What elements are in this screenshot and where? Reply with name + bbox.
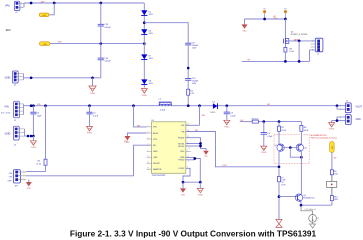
svg-text:1: 1 bbox=[187, 150, 188, 152]
resistor R10 bbox=[330, 196, 338, 202]
junction bbox=[336, 104, 339, 107]
junction bbox=[336, 119, 339, 122]
svg-text:0.25: 0.25 bbox=[190, 93, 194, 95]
wire top VPb rail bbox=[24, 2, 144, 4]
connector J5 VOUT bbox=[337, 101, 363, 113]
svg-text:J7: J7 bbox=[317, 54, 319, 56]
svg-text:ON: ON bbox=[9, 173, 13, 175]
svg-text:PGND: PGND bbox=[87, 133, 93, 135]
wire HV source rail bbox=[242, 60, 310, 62]
svg-text:SAMPLE: SAMPLE bbox=[153, 168, 162, 171]
current source I1 bbox=[301, 205, 320, 228]
junction bbox=[284, 18, 287, 21]
ground GND below C1/J4 bbox=[30, 136, 36, 149]
wire to emitter node bbox=[331, 201, 333, 206]
wire base tie bbox=[282, 147, 298, 149]
svg-text:5: 5 bbox=[148, 144, 149, 146]
svg-text:TP10: TP10 bbox=[273, 18, 277, 20]
connector J8 GND out bbox=[332, 115, 361, 125]
junction bbox=[32, 104, 35, 107]
junction bbox=[88, 104, 91, 107]
junction bbox=[278, 120, 281, 123]
junction bbox=[30, 2, 33, 5]
junction bbox=[30, 76, 33, 79]
capacitor C1 bbox=[30, 106, 42, 136]
net flag -90V (yellow oval) bbox=[39, 13, 49, 17]
svg-text:+ PULSE(2m 0): + PULSE(2m 0) bbox=[304, 209, 316, 211]
net flag -90V (yellow oval 2) bbox=[39, 42, 50, 46]
svg-text:-90V: -90V bbox=[40, 2, 45, 4]
junction bbox=[278, 165, 281, 168]
junction bbox=[91, 76, 94, 79]
junction bbox=[182, 181, 185, 184]
svg-text:GND: GND bbox=[5, 132, 11, 136]
junction bbox=[300, 204, 303, 207]
ammeter probe box bbox=[327, 181, 337, 187]
IC left pin stubs bbox=[147, 127, 152, 169]
wire GND2 to C1 bbox=[25, 135, 34, 137]
wire MODE/MON1/MON2 tie bbox=[186, 138, 206, 151]
svg-text:10nF: 10nF bbox=[281, 185, 286, 187]
svg-text:VPD: VPD bbox=[204, 156, 208, 158]
wire connector drop bbox=[309, 50, 311, 62]
svg-text:OFF: OFF bbox=[8, 180, 13, 182]
svg-text:C4: C4 bbox=[267, 133, 271, 135]
wire gate pulldown bbox=[298, 41, 300, 62]
svg-text:ON: ON bbox=[9, 177, 13, 179]
wire probe bbox=[331, 187, 333, 195]
svg-text:PGND: PGND bbox=[178, 160, 185, 162]
junction bbox=[225, 104, 228, 107]
svg-text:11: 11 bbox=[147, 162, 149, 164]
junction bbox=[289, 146, 292, 149]
wire SW node drop bbox=[199, 106, 201, 126]
diode D8 bbox=[141, 79, 153, 85]
wire probe bbox=[331, 175, 333, 182]
connector J6 gate drive bbox=[310, 38, 323, 56]
transistor Q4 (NPN) bbox=[295, 191, 315, 201]
svg-text:100V: 100V bbox=[192, 83, 197, 85]
svg-text:8: 8 bbox=[148, 156, 149, 158]
ground PGND below D8 bbox=[141, 89, 147, 97]
wire COMP pin bbox=[183, 168, 190, 182]
wire AUX2 pin bbox=[127, 133, 146, 136]
svg-text:J4: J4 bbox=[14, 145, 17, 147]
svg-text:GND: GND bbox=[181, 194, 186, 196]
wire MOSFET drain bbox=[284, 19, 286, 38]
svg-text:R3 20.0: R3 20.0 bbox=[252, 118, 259, 120]
svg-text:13: 13 bbox=[147, 168, 149, 170]
svg-text:100V: 100V bbox=[192, 47, 197, 49]
junction node diode chain bbox=[143, 21, 146, 24]
svg-text:0.01µF: 0.01µF bbox=[104, 61, 111, 63]
capacitor C14 bbox=[98, 44, 112, 78]
svg-text:TP2: TP2 bbox=[263, 9, 266, 11]
capacitor C4 bbox=[261, 122, 273, 147]
svg-text:71.5k: 71.5k bbox=[36, 163, 41, 165]
svg-text:HV: HV bbox=[334, 158, 337, 160]
transistor Q2 (PNP, mirrored) bbox=[296, 144, 307, 151]
svg-text:Q1: Q1 bbox=[274, 145, 276, 147]
connector J1 VIN bbox=[1, 101, 24, 122]
svg-text:C1: C1 bbox=[37, 113, 41, 115]
svg-text:3: 3 bbox=[148, 131, 149, 133]
junction bbox=[298, 60, 301, 63]
connector J2 GND bbox=[5, 71, 24, 87]
svg-text:MODE: MODE bbox=[178, 138, 185, 140]
svg-text:GND: GND bbox=[125, 142, 130, 144]
junction bbox=[199, 181, 202, 184]
svg-text:SW: SW bbox=[202, 115, 205, 117]
svg-text:AUX2: AUX2 bbox=[153, 132, 159, 135]
svg-text:100V: 100V bbox=[149, 58, 154, 60]
junction bbox=[30, 104, 33, 107]
ground VPD at MON pins bbox=[203, 151, 209, 158]
svg-text:0.01µF: 0.01µF bbox=[104, 27, 111, 29]
wire drop to flag bbox=[49, 3, 54, 15]
svg-text:GND: GND bbox=[243, 30, 248, 32]
diode D7 bbox=[141, 54, 153, 60]
resistor R3 bbox=[252, 118, 259, 123]
svg-text:VDF: VDF bbox=[180, 151, 185, 153]
svg-text:SHORT: SHORT bbox=[153, 163, 161, 165]
ground PGND below C2 bbox=[87, 126, 93, 134]
svg-text:2: 2 bbox=[148, 125, 149, 127]
wire flag2 to diode chain bbox=[50, 43, 144, 45]
wire FB pin net bbox=[186, 132, 279, 167]
svg-text:10.0k: 10.0k bbox=[289, 51, 293, 53]
ground GND under IC bbox=[180, 182, 186, 196]
wire MON1 bbox=[186, 143, 201, 145]
transistor Q1 (PNP) bbox=[274, 144, 284, 151]
ground GND (TP net) bbox=[242, 19, 248, 32]
ground PGND below C4 bbox=[261, 146, 267, 154]
diode D6 bbox=[141, 29, 153, 35]
junction bbox=[99, 2, 102, 5]
svg-text:VIN: VIN bbox=[37, 104, 41, 106]
svg-text:GND: GND bbox=[356, 119, 361, 121]
IC right pin names bbox=[178, 125, 185, 170]
svg-text:Figure 2-1. 3.3 V Input -90 V: Figure 2-1. 3.3 V Input -90 V Output Con… bbox=[70, 228, 317, 238]
svg-text:JP1: JP1 bbox=[15, 185, 19, 187]
svg-text:PGND: PGND bbox=[261, 152, 267, 154]
wire GND rail bbox=[24, 77, 101, 79]
svg-text:2.2µF: 2.2µF bbox=[267, 136, 273, 138]
svg-text:6: 6 bbox=[188, 161, 189, 163]
svg-text:J3: J3 bbox=[15, 12, 18, 14]
ground PGND below C3 bbox=[224, 120, 230, 128]
svg-text:ES1D: ES1D bbox=[211, 112, 216, 114]
wire R3 sense net bbox=[240, 121, 253, 123]
IC right pin numbers bbox=[187, 124, 190, 169]
junction bbox=[53, 2, 56, 5]
svg-text:100V: 100V bbox=[149, 83, 154, 85]
wire ground tie under IC bbox=[183, 181, 200, 183]
svg-text:J5: J5 bbox=[346, 101, 348, 103]
svg-text:100V: 100V bbox=[149, 14, 154, 16]
wire PAD/PGND pins tie bbox=[186, 157, 201, 182]
svg-text:J1: J1 bbox=[14, 120, 17, 122]
junction bbox=[32, 135, 35, 138]
svg-text:-90V: -90V bbox=[332, 145, 334, 150]
svg-text:C3: C3 bbox=[230, 113, 234, 115]
junction bbox=[27, 135, 30, 138]
svg-text:VIN: VIN bbox=[4, 104, 8, 108]
svg-text:GND: GND bbox=[27, 188, 32, 190]
junction bbox=[143, 42, 146, 45]
wire bbox=[187, 45, 189, 79]
junction bbox=[187, 104, 190, 107]
ground PGND (output) bbox=[329, 121, 335, 131]
svg-text:R2: R2 bbox=[38, 161, 41, 163]
svg-text:CAP: CAP bbox=[153, 156, 158, 159]
svg-text:49.9k: 49.9k bbox=[281, 130, 286, 132]
test point TP3 bbox=[284, 9, 287, 19]
junction bbox=[300, 156, 303, 159]
resistor R5 bbox=[278, 122, 286, 144]
junction bbox=[262, 120, 265, 123]
svg-text:TP3: TP3 bbox=[284, 9, 287, 11]
wire SW pin bbox=[186, 124, 200, 126]
resistor R8 bbox=[284, 44, 294, 61]
wire bbox=[187, 95, 189, 106]
wire top-right TP net bbox=[245, 18, 286, 20]
svg-text:0.1µF: 0.1µF bbox=[230, 115, 236, 117]
svg-text:VIN: VIN bbox=[153, 127, 157, 129]
junction bbox=[284, 60, 287, 63]
junction bbox=[44, 104, 47, 107]
svg-text:I1: I1 bbox=[317, 218, 320, 220]
svg-text:1.21V: 1.21V bbox=[222, 165, 228, 167]
resistor R9 bbox=[330, 170, 338, 176]
svg-text:4: 4 bbox=[148, 137, 149, 139]
connector J3 bbox=[14, 1, 24, 14]
capacitor C15 bbox=[185, 78, 199, 85]
svg-text:COMP: COMP bbox=[178, 168, 185, 170]
junction bbox=[199, 142, 202, 145]
svg-text:2.9 - 5.5V: 2.9 - 5.5V bbox=[1, 113, 11, 115]
svg-text:Q2: Q2 bbox=[304, 147, 306, 149]
wire VIN pin drop bbox=[134, 106, 147, 127]
svg-text:J2: J2 bbox=[14, 85, 17, 87]
net flag -90V (yellow vertical oval) bbox=[330, 142, 335, 153]
svg-text:L1: L1 bbox=[159, 99, 162, 101]
svg-text:PGND: PGND bbox=[329, 129, 335, 131]
annotation box PNP pair (red dashed) bbox=[274, 134, 309, 163]
svg-text:PGND: PGND bbox=[224, 126, 230, 128]
junction bbox=[278, 195, 281, 198]
svg-text:PGND: PGND bbox=[31, 147, 37, 149]
wire base to collector tie bbox=[290, 148, 301, 158]
svg-text:MOSFET_N_DRIVER: MOSFET_N_DRIVER bbox=[291, 34, 308, 36]
svg-text:100V: 100V bbox=[149, 33, 154, 35]
svg-text:VPD: VPD bbox=[153, 139, 158, 141]
svg-text:PGND: PGND bbox=[142, 95, 148, 97]
svg-text:GND: GND bbox=[5, 76, 11, 80]
svg-text:D1: D1 bbox=[213, 101, 216, 103]
junction bbox=[187, 67, 190, 70]
wire Q2 collector down bbox=[300, 151, 302, 191]
svg-text:VIN: VIN bbox=[137, 125, 141, 127]
resistor R7 bbox=[278, 176, 287, 219]
wire bbox=[258, 121, 301, 123]
svg-text:750k: 750k bbox=[334, 173, 338, 175]
capacitor C2 bbox=[86, 106, 98, 127]
junction bbox=[132, 104, 135, 107]
svg-text:-90V: -90V bbox=[42, 15, 47, 17]
junction bbox=[263, 18, 266, 21]
wire HV net bbox=[331, 153, 333, 170]
diode D1 bbox=[211, 101, 218, 114]
svg-text:182k: 182k bbox=[334, 199, 338, 201]
capacitor C8 bbox=[185, 43, 199, 50]
wire bbox=[187, 80, 189, 89]
wire emitter node bbox=[301, 201, 332, 205]
resistor R2 pullup bbox=[26, 106, 47, 172]
svg-text:4.7µF: 4.7µF bbox=[93, 115, 99, 117]
svg-text:VOUT: VOUT bbox=[356, 106, 363, 108]
wire NPN base bbox=[279, 196, 297, 198]
IC right pin stubs bbox=[186, 125, 191, 168]
svg-text:TPS61391PWP: TPS61391PWP bbox=[152, 175, 167, 177]
junction bbox=[193, 157, 196, 160]
svg-text:MON2: MON2 bbox=[178, 146, 185, 148]
transistor Q3 MOSFET_N_DRIVER bbox=[284, 32, 308, 45]
capacitor C13 bbox=[98, 3, 112, 44]
ground PGND (left rail) bbox=[89, 78, 96, 95]
svg-text:VPb: VPb bbox=[5, 5, 10, 8]
junction bbox=[30, 135, 33, 138]
svg-text:BC846BDW1T1G: BC846BDW1T1G bbox=[311, 135, 327, 137]
svg-text:SW: SW bbox=[181, 125, 184, 127]
svg-text:PNP matched double transistor: PNP matched double transistor bbox=[311, 137, 338, 140]
ground GND at AUX2 bbox=[124, 136, 130, 144]
svg-text:-90V: -90V bbox=[57, 41, 62, 43]
svg-text:10µF: 10µF bbox=[37, 115, 42, 117]
junction bbox=[198, 104, 201, 107]
svg-text:BC846BLT1G: BC846BLT1G bbox=[303, 198, 315, 200]
test point TP2 bbox=[263, 9, 266, 19]
diode D5 bbox=[141, 10, 153, 16]
wire main input rail bbox=[24, 105, 346, 107]
IC left pin names bbox=[153, 127, 162, 171]
svg-text:C2: C2 bbox=[93, 113, 97, 115]
ground PGND under IC bbox=[197, 182, 203, 196]
svg-text:PGND: PGND bbox=[198, 194, 204, 196]
ground GND (Q1 leg) bbox=[276, 219, 282, 227]
svg-text:10: 10 bbox=[188, 147, 190, 149]
wire Q1 collector / FB node bbox=[278, 151, 280, 176]
junction bbox=[298, 40, 301, 43]
diode chain vertical wire bbox=[143, 3, 145, 88]
svg-text:EN: EN bbox=[153, 145, 156, 147]
junction bbox=[99, 42, 102, 45]
svg-text:R5: R5 bbox=[281, 127, 284, 129]
svg-text:C13: C13 bbox=[104, 24, 109, 26]
svg-text:GND: GND bbox=[153, 151, 158, 153]
svg-text:16.9k: 16.9k bbox=[304, 130, 309, 132]
wire MON2 bbox=[186, 145, 201, 147]
IC left pin numbers bbox=[147, 125, 149, 169]
svg-text:4.7µH: 4.7µH bbox=[160, 110, 166, 112]
svg-text:-90V: -90V bbox=[5, 28, 11, 32]
svg-text:-90V: -90V bbox=[43, 44, 48, 46]
resistor R6 bbox=[300, 122, 308, 144]
inductor L1 bbox=[159, 99, 172, 111]
svg-text:C14: C14 bbox=[104, 58, 109, 60]
connector J4 GND bbox=[5, 126, 25, 146]
wire EN net bbox=[26, 145, 152, 176]
junction bbox=[199, 145, 202, 148]
ground GND below OFF pin bbox=[26, 180, 32, 190]
connector JP1 ON/OFF bbox=[8, 170, 26, 188]
svg-text:R6: R6 bbox=[304, 127, 307, 129]
resistor R4 bbox=[187, 89, 194, 95]
wire gate net bbox=[289, 40, 316, 42]
wire branch to C8 chain bbox=[144, 23, 188, 44]
svg-text:PGND: PGND bbox=[90, 93, 96, 95]
op IC U1 TPS61391 bbox=[152, 120, 186, 177]
svg-text:7: 7 bbox=[148, 150, 149, 152]
capacitor C3 bbox=[224, 106, 237, 121]
